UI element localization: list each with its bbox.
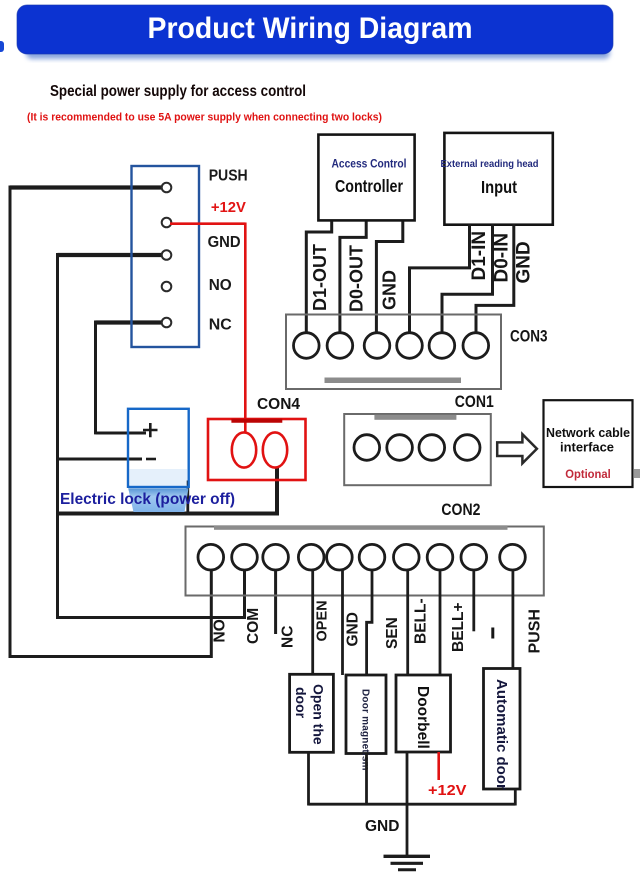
terminal GND [162,250,172,260]
svg-text:GND: GND [365,818,399,835]
wire NC vertical to lock [94,321,97,435]
wire to lock minus [58,458,143,461]
network cable interface box [544,400,633,487]
wire gnd bus to COM [56,616,245,619]
svg-text:+12V: +12V [211,199,246,216]
terminal block main unit [132,166,200,347]
CON2 pin minus [461,544,487,570]
svg-text:Access Control: Access Control [332,157,407,171]
svg-text:interface: interface [560,440,614,455]
wire +12V vertical to CON4 [244,223,247,434]
svg-text:CON2: CON2 [441,501,480,519]
CON2 pin OPEN [298,544,324,570]
wire open door to bus [307,752,310,805]
electric lock highlight blob [128,488,188,512]
CON1 pin 1 [354,435,380,461]
svg-text:GND: GND [208,234,241,251]
wire gnd bus vertical [56,253,59,619]
connector CON1 [344,414,491,485]
electric lock body [128,409,189,487]
wire NC stub under CON2 [274,570,277,635]
lock plus symbol [143,423,158,437]
svg-text:Network cable: Network cable [546,425,630,440]
svg-text:BELL-: BELL- [412,598,429,644]
doorbell box [396,675,451,752]
wire PUSH terminal to left bus [10,185,163,189]
svg-text:Optional: Optional [565,467,611,481]
wire doorbell +12V red [437,752,440,780]
wire left bus vertical [9,186,12,659]
CON2 pin SEN [359,544,385,570]
CON4 terminal 1 [232,432,256,467]
automatic door box [484,669,521,790]
CON3 pin 1 [294,333,320,359]
wire lock right edge to bus [186,481,189,515]
svg-text:External reading head: External reading head [441,159,539,170]
border artifact right edge [634,469,640,478]
wire BELL- drop [406,570,409,676]
svg-text:NO: NO [211,619,228,642]
CON3 pin 2 [327,333,353,359]
wire ground bus [309,803,516,806]
title banner shadow [26,46,610,59]
wire OPEN drop [311,570,314,676]
wire D1-IN [410,224,470,334]
svg-text:D0-OUT: D0-OUT [347,245,367,312]
CON2 pin COM [232,544,258,570]
ground symbol [384,855,431,858]
terminal NC [162,318,172,328]
CON3 pin 6 [463,333,489,359]
svg-text:+12V: +12V [428,783,467,799]
svg-text:NO: NO [209,277,232,294]
svg-text:Electric lock (power off): Electric lock (power off) [60,491,235,508]
CON3 pin 4 [397,333,423,359]
svg-text:NC: NC [209,317,232,334]
terminal PUSH [162,183,172,193]
svg-text:D1-IN: D1-IN [469,231,490,281]
wire NO drop [210,570,213,659]
wire GND drop [341,570,344,675]
wire +12V horizontal [170,222,245,225]
svg-text:Open the: Open the [310,684,326,745]
svg-text:door: door [293,687,309,719]
svg-text:CON1: CON1 [455,393,494,411]
svg-text:Product Wiring Diagram: Product Wiring Diagram [148,12,473,45]
wire magnet to bus [365,754,368,806]
CON4 terminal 2 [263,432,287,467]
svg-text:Automatic door: Automatic door [493,679,510,790]
wire GND out [376,222,402,334]
CON2 pin GND [327,544,353,570]
border artifact left edge [0,41,4,52]
svg-text:Doorbell: Doorbell [414,686,431,749]
svg-text:PUSH: PUSH [209,168,248,185]
arrow to network interface [497,434,537,463]
svg-text:CON3: CON3 [510,328,548,346]
wire GND in [476,224,514,334]
CON3 pin 3 [364,333,390,359]
CON2 pin BELL- [394,544,420,570]
wire CON4 output bus [56,512,277,516]
svg-text:COM: COM [245,608,262,644]
CON4 top bar [231,419,282,423]
CON2 pin BELL+ [427,544,453,570]
svg-text:Special power supply for acces: Special power supply for access control [50,83,306,100]
svg-text:Door magnetism: Door magnetism [359,689,370,771]
terminal NO [162,282,172,292]
svg-text:D0-IN: D0-IN [491,233,512,283]
wire to lock plus [96,432,147,435]
wire GND terminal horizontal [58,253,164,257]
svg-text:BELL+: BELL+ [450,602,467,652]
wire bottom bus to NO [9,655,212,658]
lock minus symbol [146,458,156,461]
wire NC terminal horizontal [96,320,164,324]
open the door box [290,674,334,752]
svg-text:OPEN: OPEN [315,600,331,641]
wire ground stem [406,804,409,855]
svg-text:Controller: Controller [335,176,403,196]
wire D0-OUT [340,222,366,334]
CON3 pin 5 [429,333,455,359]
svg-text:SEN: SEN [384,617,401,649]
title banner [17,5,613,54]
wire BELL+ drop [439,570,442,676]
CON1 pin 2 [387,435,413,461]
wire COM drop [243,570,246,620]
access control controller box [318,135,414,221]
wire D0-IN [442,224,493,334]
electric lock inner tint [130,469,188,486]
external reading head box [444,133,552,225]
CON2 pin NO [198,544,224,570]
svg-text:Input: Input [481,177,517,197]
CON1 gray bar [374,415,456,420]
CON2 pin PUSH [500,544,526,570]
svg-text:GND: GND [379,270,399,310]
CON1 pin 4 [454,435,480,461]
connector CON3 [286,315,501,390]
svg-text:D1-OUT: D1-OUT [310,244,330,311]
connector CON2 [186,527,544,596]
CON2 pin NC [263,544,289,570]
door magnetism box [346,675,386,754]
connector CON4 [208,419,306,480]
CON2 gray bar [214,525,508,530]
svg-text:GND: GND [514,241,535,283]
svg-text:NC: NC [280,626,297,648]
svg-text:CON4: CON4 [257,396,300,413]
CON1 pin 3 [419,435,445,461]
label minus dash [491,628,494,639]
svg-text:GND: GND [344,612,361,646]
svg-text:(It is recommended to use 5A p: (It is recommended to use 5A power suppl… [27,112,382,124]
wire SEN drop with jog [367,570,372,676]
svg-text:PUSH: PUSH [526,609,543,653]
wire CON4 output drop [275,467,279,516]
wire automatic to bus [514,789,517,806]
wire doorbell to bus [406,752,409,806]
wire minus stub [472,570,475,632]
wire D1-OUT [306,222,331,334]
terminal +12V [162,218,172,228]
wire PUSH drop [512,570,515,670]
CON3 gray bar [325,378,462,384]
